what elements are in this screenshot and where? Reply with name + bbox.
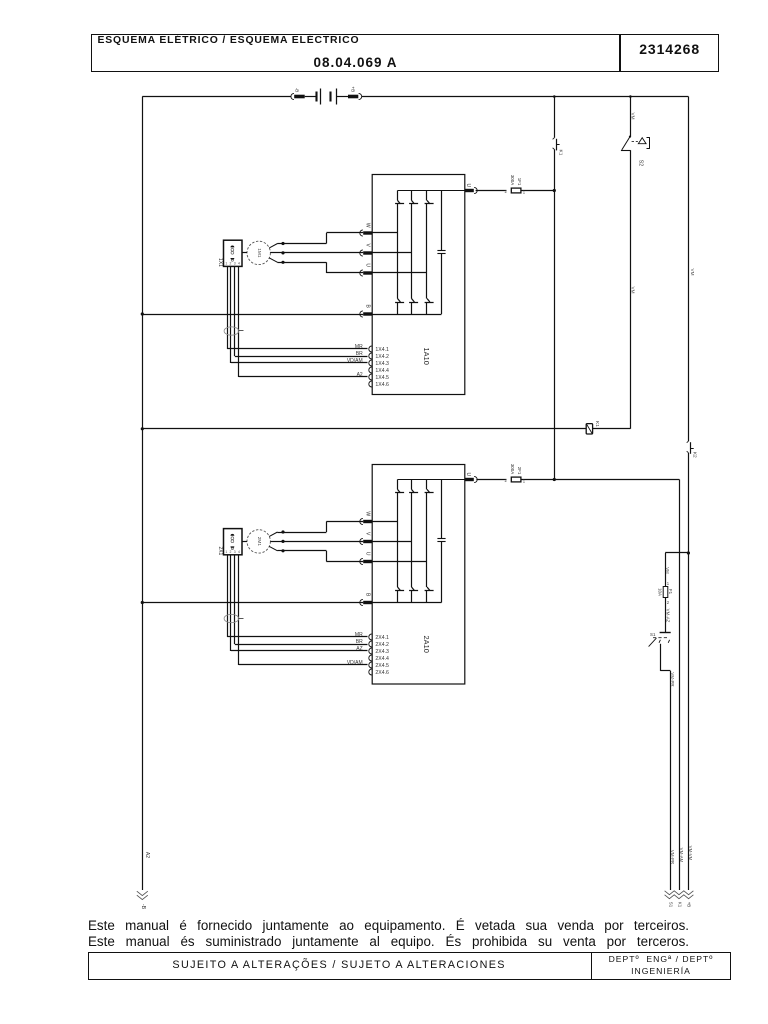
svg-text:1X1: 1X1 <box>217 258 223 267</box>
svg-text:K1: K1 <box>677 902 682 908</box>
svg-text:4: 4 <box>238 550 240 554</box>
svg-text:300A: 300A <box>510 175 515 185</box>
svg-text:W: W <box>365 511 371 516</box>
svg-text:U: U <box>465 183 471 187</box>
svg-text:B: B <box>365 305 371 309</box>
svg-text:A2: A2 <box>144 852 150 858</box>
svg-text:S1: S1 <box>668 902 673 908</box>
svg-text:VM: VM <box>690 269 695 276</box>
svg-text:1: 1 <box>225 550 227 554</box>
svg-text:3: 3 <box>234 261 236 265</box>
svg-text:VM: VM <box>665 567 670 574</box>
svg-text:1X4.2: 1X4.2 <box>375 354 389 360</box>
svg-text:U: U <box>365 263 371 267</box>
svg-text:300A: 300A <box>510 464 515 474</box>
svg-text:-B: -B <box>140 904 146 910</box>
svg-text:+B: +B <box>686 902 691 908</box>
svg-text:V: V <box>365 244 371 248</box>
svg-text:1: 1 <box>667 581 670 586</box>
svg-text:VM-AZ: VM-AZ <box>665 609 670 623</box>
svg-text:1X4.5: 1X4.5 <box>375 375 389 381</box>
svg-text:1X4.6: 1X4.6 <box>375 382 389 388</box>
svg-text:AZ: AZ <box>356 646 362 652</box>
svg-text:MR: MR <box>355 344 363 350</box>
svg-text:1X4.3: 1X4.3 <box>375 361 389 367</box>
svg-text:2: 2 <box>230 550 232 554</box>
svg-text:2X4.2: 2X4.2 <box>375 642 389 648</box>
svg-text:1F1: 1F1 <box>517 178 522 186</box>
svg-text:1X4.4: 1X4.4 <box>375 368 389 374</box>
svg-text:VM-AM: VM-AM <box>679 848 684 863</box>
svg-text:2X4.1: 2X4.1 <box>375 635 389 641</box>
svg-text:10A: 10A <box>658 588 663 596</box>
svg-text:2X4.3: 2X4.3 <box>375 649 389 655</box>
svg-text:2X1: 2X1 <box>217 546 223 555</box>
svg-text:2X4.5: 2X4.5 <box>375 663 389 669</box>
svg-text:W: W <box>365 223 371 228</box>
svg-text:2X4.4: 2X4.4 <box>375 656 389 662</box>
svg-text:MR: MR <box>355 632 363 638</box>
svg-text:2: 2 <box>230 261 232 265</box>
svg-text:BR: BR <box>356 639 363 645</box>
svg-text:K1: K1 <box>594 421 600 427</box>
svg-text:1M1: 1M1 <box>256 248 262 258</box>
svg-text:B: B <box>365 593 371 597</box>
svg-text:VD/AM: VD/AM <box>347 660 363 666</box>
svg-text:2: 2 <box>504 478 507 483</box>
svg-text:2X4.6: 2X4.6 <box>375 670 389 676</box>
svg-text:2: 2 <box>667 600 670 605</box>
svg-text:VM: VM <box>630 113 635 120</box>
svg-text:S1: S1 <box>650 632 656 637</box>
svg-text:K1: K1 <box>558 150 564 156</box>
svg-text:2: 2 <box>504 189 507 194</box>
svg-text:S2: S2 <box>637 160 643 166</box>
svg-text:BR: BR <box>356 351 363 357</box>
svg-text:+B: +B <box>351 86 356 92</box>
svg-text:U: U <box>465 472 471 476</box>
svg-text:2F1: 2F1 <box>517 467 522 475</box>
svg-text:K2: K2 <box>692 452 698 458</box>
svg-text:V: V <box>365 532 371 536</box>
svg-text:3: 3 <box>234 550 236 554</box>
svg-text:4: 4 <box>238 261 240 265</box>
svg-text:1: 1 <box>225 261 227 265</box>
svg-text:VM: VM <box>630 287 635 294</box>
svg-text:1A10: 1A10 <box>422 348 431 365</box>
svg-text:VM-PR: VM-PR <box>670 850 675 864</box>
svg-text:A2: A2 <box>357 372 363 378</box>
svg-text:VM-PR: VM-PR <box>670 672 675 686</box>
svg-text:VM-VM: VM-VM <box>688 846 693 861</box>
svg-text:2A10: 2A10 <box>422 636 431 653</box>
svg-text:1X4.1: 1X4.1 <box>375 347 389 353</box>
svg-text:-B: -B <box>295 88 300 93</box>
svg-text:F1: F1 <box>668 589 673 595</box>
svg-text:U: U <box>365 552 371 556</box>
svg-text:2M1: 2M1 <box>256 537 262 547</box>
svg-text:VD/AM: VD/AM <box>347 358 363 364</box>
